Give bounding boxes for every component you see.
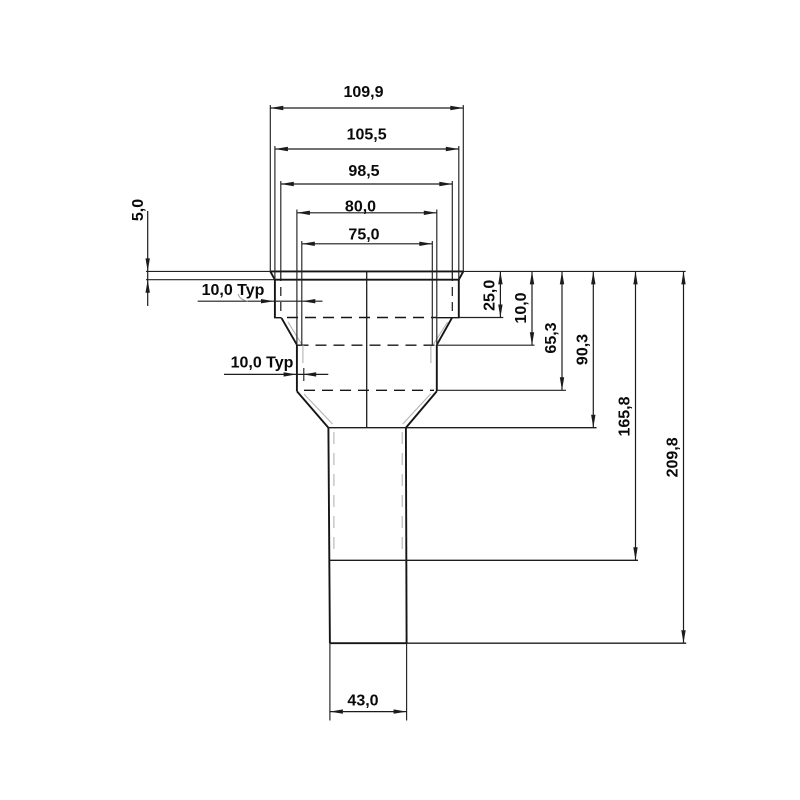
gray inner taper1 left (288, 322, 302, 344)
flange bottom extension left (146, 279, 275, 281)
ext vertical 98,5 right (451, 181, 453, 271)
tick at lower leader (303, 368, 305, 381)
dim 90,3 vertical (592, 271, 594, 427)
ext vertical 105,5 right (458, 146, 460, 280)
svg-text:75,0: 75,0 (348, 227, 379, 244)
leader 10,0 Typ upper (198, 300, 323, 302)
bottom extension line to 209,8 (407, 642, 687, 644)
ext vertical 80,0 right (436, 210, 438, 345)
ext line 65,3 level (437, 389, 566, 391)
dim 209,8 vertical (683, 271, 685, 643)
left taper 1 (282, 318, 297, 345)
tube left wall (328, 428, 330, 644)
dim 109,9 (270, 107, 463, 109)
dim 5,0 line (147, 211, 149, 306)
dim 165,8 vertical (635, 271, 637, 560)
ext vertical 80,0 left (296, 210, 298, 345)
inner bore bottom line + 165,8 extension (329, 559, 638, 561)
svg-text:10,0 Typ: 10,0 Typ (202, 282, 265, 299)
svg-text:90,3: 90,3 (574, 334, 591, 365)
gray inner bore left (dashed) (333, 432, 335, 558)
svg-text:80,0: 80,0 (345, 199, 376, 216)
gray inner taper1 right (434, 322, 448, 344)
svg-text:98,5: 98,5 (348, 163, 379, 180)
hidden line at 25,0 level (287, 317, 437, 319)
right outer wall upper (458, 280, 460, 318)
gray inner wall right (430, 346, 432, 363)
hidden bore edge left below flange (280, 272, 282, 318)
dim 10,0 vertical (531, 271, 533, 345)
right knee step (438, 317, 460, 319)
ext vertical 109,9 left (269, 105, 271, 271)
dim 98,5 (281, 183, 453, 185)
leader 10,0 Typ lower (224, 373, 328, 375)
ext vertical 105,5 left (274, 146, 276, 280)
right taper 2 (406, 391, 437, 428)
flange top surface (part edge) (270, 270, 463, 272)
left outer wall upper (274, 280, 276, 318)
center web line (366, 271, 368, 427)
svg-text:43,0: 43,0 (347, 693, 378, 710)
ext line 25,0 level (460, 317, 504, 319)
svg-text:5,0: 5,0 (130, 199, 147, 221)
hidden line at taper1 bottom level (298, 344, 438, 346)
svg-text:209,8: 209,8 (665, 437, 682, 477)
tube right wall (405, 428, 408, 644)
tube bottom edge (330, 642, 407, 644)
ext vertical 43,0 right (406, 643, 408, 720)
tube top step line + 90,3 extension (328, 427, 596, 429)
flange left chamfer (270, 271, 275, 279)
svg-text:10,0: 10,0 (513, 292, 530, 323)
svg-text:165,8: 165,8 (617, 396, 634, 436)
svg-text:105,5: 105,5 (347, 127, 387, 144)
flange top extension right (463, 270, 685, 272)
right taper 1 (437, 318, 452, 345)
hidden line at 65,3 level (304, 389, 434, 391)
left taper 2 (297, 391, 329, 428)
dim 65,3 vertical (561, 271, 563, 390)
ext line 10,0 level (437, 344, 535, 346)
dim 43,0 (330, 711, 407, 713)
flange top extension left (146, 270, 270, 272)
ext vertical 109,9 right (462, 105, 464, 271)
svg-text:10,0 Typ: 10,0 Typ (231, 355, 294, 372)
left knee step (274, 317, 282, 319)
gray inner taper2 right (403, 394, 431, 424)
svg-text:109,9: 109,9 (343, 84, 383, 101)
left mid wall (296, 345, 298, 391)
dim 105,5 (275, 148, 459, 150)
dim 75,0 (302, 243, 433, 245)
svg-text:25,0: 25,0 (481, 280, 498, 311)
gray inner wall left (302, 345, 304, 363)
ext vertical 43,0 left (329, 643, 331, 720)
leader hook upper (238, 294, 248, 301)
flange bottom surface (part edge) (275, 279, 459, 281)
svg-text:65,3: 65,3 (543, 322, 560, 353)
ext vertical 75,0 right (431, 241, 433, 345)
dim 80,0 (297, 212, 437, 214)
right mid wall (436, 345, 438, 391)
gray inner bore right (dashed) (401, 432, 403, 558)
flange right chamfer (459, 271, 464, 279)
ext vertical 98,5 left (280, 181, 282, 271)
gray inner taper2 left (304, 394, 333, 424)
ext vertical 75,0 left (301, 241, 303, 345)
hidden bore edge right below flange (451, 272, 453, 318)
dim 25,0 vertical (499, 271, 501, 317)
